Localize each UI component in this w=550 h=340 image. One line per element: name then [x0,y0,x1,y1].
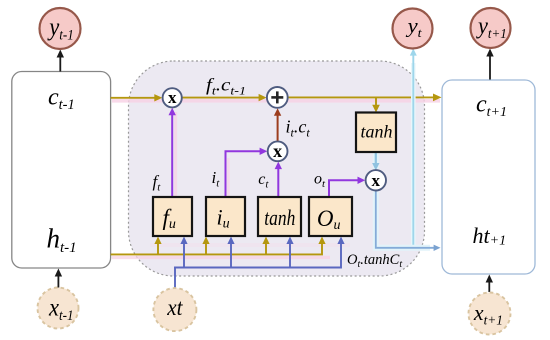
wire tanh box to multiply3 (glow) [373,152,379,169]
wire c_t-1 to multiply [111,97,158,99]
wire highlight artifact (pink) along h bus [112,256,330,259]
wire x_t riser [174,268,176,290]
previous-state block (c_t-1 / h_t-1) [12,72,111,269]
wire tanh box to multiply3 [375,152,377,167]
next-state block (c_t+1 / h_t+1) [442,80,535,274]
wire h_t up to y_t (glow) [411,63,416,247]
wire x_t bus [174,241,341,268]
wire h bus riser to tanh gate [265,241,267,254]
wire i_t to multiply2 [226,151,264,197]
wire o_t to multiply3 [329,180,361,197]
wire highlight artifact (pink) along i_t line [227,158,230,196]
wire h_t-1 bus [111,241,322,254]
input x_t+1 circle [469,293,511,335]
svg-text:x: x [273,141,282,161]
input x_t circle [153,288,196,331]
gate tanh [258,197,301,236]
wire O_t.tanhC_t to h_t+1 (glow) [376,192,430,248]
wire i_t.c_t multiply2 to add [277,112,279,141]
wire f_t to multiply [171,112,173,198]
gate i_u [206,197,245,236]
tanh output box [356,113,396,153]
multiply node 1 [163,88,182,107]
LSTM cell dashed region [129,61,425,276]
wire highlight artifact (pink) along cell-state line [112,99,440,103]
input x_t-1 circle [38,288,79,329]
output y_t circle [393,9,433,49]
multiply node 3 [366,170,386,190]
input x_t+1 arrow [488,279,490,293]
gate f_u [153,197,192,236]
svg-text:xt: xt [166,295,183,320]
wire h_t up to y_t [412,52,414,247]
wire x bus riser to O_u [337,237,344,245]
svg-text:tanh: tanh [264,205,295,230]
output y_t-1 circle [40,8,81,49]
wire h bus riser to i_u [205,241,207,254]
input x_t-1 arrow [57,272,59,288]
wire h bus riser to f_u [157,241,159,254]
svg-text:x: x [372,171,381,190]
wire x bus riser to f_u [183,241,185,268]
wire multiply to add (f_t.c_t-1) [182,97,262,99]
wire O_t.tanhC_t to h_t+1 [376,191,436,248]
wire branch down into tanh box [375,97,377,108]
svg-text:tanh: tanh [361,122,393,142]
wire add to c_t+1 [288,96,437,98]
svg-text:x: x [168,88,177,107]
svg-text:Ot.tanhCt: Ot.tanhCt [347,252,402,270]
multiply node 2 [268,141,288,161]
output y_t-1 arrow [59,53,61,72]
wire highlight artifact (pink) along riser band [150,243,350,247]
wire x bus riser to tanh gate [289,241,291,268]
wire c_t to multiply2 [277,166,279,198]
wire h bus riser to O_u [318,237,325,245]
gate O_u [309,197,352,236]
output y_t+1 arrow [489,52,491,80]
wire x bus riser to i_u [230,241,232,268]
wire highlight artifact (pink) along f_t line [174,112,177,196]
add node [267,87,288,108]
output y_t+1 circle [471,8,511,48]
